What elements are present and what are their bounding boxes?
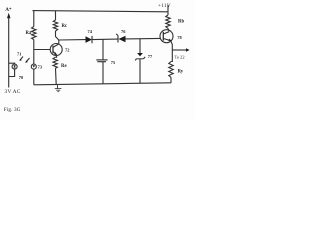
wire mid rail segment 76 to Q78 base	[126, 37, 161, 40]
svg-text:+11V: +11V	[158, 3, 171, 9]
wire bottom rail	[34, 83, 171, 85]
svg-text:71: 71	[17, 51, 21, 56]
diode 74	[86, 36, 93, 43]
svg-text:A⁺: A⁺	[5, 7, 12, 13]
svg-text:To 22: To 22	[175, 54, 185, 59]
wire photodiode bottom to rail corner	[33, 69, 35, 85]
wire Rc top from rail	[55, 11, 57, 20]
arrow head To 22	[186, 48, 190, 52]
wire Ry bottom to rail	[170, 77, 172, 82]
wire Re bottom to rail	[55, 68, 58, 84]
wire output branch to 22	[172, 49, 186, 51]
ground	[55, 85, 62, 92]
svg-text:Rc: Rc	[62, 24, 68, 29]
svg-text:Fig. 3G: Fig. 3G	[4, 107, 21, 113]
svg-text:72: 72	[65, 47, 69, 52]
resistor Rc	[53, 20, 57, 31]
wire zener branch bottom	[139, 59, 141, 84]
wire Q72 emitter to Re	[55, 55, 56, 57]
capacitor 75	[96, 60, 107, 62]
wire capacitor branch top	[102, 39, 104, 60]
resistor Ry	[169, 62, 173, 78]
wire Rb bottom to Q78 collector	[168, 28, 169, 31]
wire capacitor branch bottom	[102, 62, 104, 84]
svg-text:Ry: Ry	[178, 70, 184, 75]
resistor Ra	[32, 27, 36, 40]
wire mid rail left segment	[59, 39, 86, 41]
LED 70 top jog	[9, 62, 15, 65]
wire Ra bottom to base junction	[33, 40, 35, 50]
wire left vertical from A+ down to 3V AC	[8, 18, 10, 88]
wire base of Q72	[34, 49, 51, 51]
wire top rail	[33, 11, 169, 12]
transistor 72	[50, 44, 62, 56]
zener diode 77	[135, 53, 145, 60]
wire Rc bottom to collector node	[56, 31, 59, 40]
wire mid rail segment 74 to 76	[92, 38, 118, 41]
wire zener branch top	[139, 39, 141, 55]
wire Q78 emitter down	[171, 41, 173, 50]
photodiode 73	[31, 64, 36, 69]
svg-text:Re: Re	[61, 64, 67, 69]
resistor Re	[53, 57, 57, 68]
wire junction down to photodiode 73	[33, 50, 35, 65]
LED 70 bottom jog	[9, 69, 15, 76]
transistor 78	[160, 30, 173, 43]
LED 70	[12, 64, 17, 69]
optocoupler light arrows	[19, 57, 29, 63]
svg-text:Ra: Ra	[26, 31, 32, 36]
resistor Rb	[166, 15, 170, 28]
svg-text:Rb: Rb	[178, 20, 184, 25]
node A+ terminal arrow	[7, 13, 11, 18]
wire emitter node down to Ry	[171, 50, 172, 62]
wire collector stub Q72	[58, 40, 60, 44]
wire top-left corner drop to Ra	[33, 11, 35, 27]
svg-text:3V AC: 3V AC	[5, 89, 21, 95]
node +11V stub	[167, 5, 169, 15]
diode 76	[116, 34, 125, 43]
